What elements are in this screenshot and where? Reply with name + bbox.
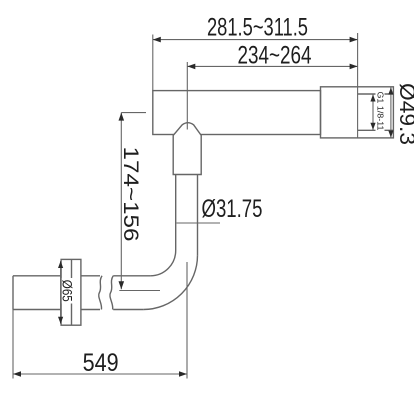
svg-text:G1 1/8-11: G1 1/8-11	[376, 92, 385, 132]
svg-text:Ø49.3: Ø49.3	[395, 83, 414, 145]
svg-text:234~264: 234~264	[238, 42, 312, 70]
svg-text:Ø31.75: Ø31.75	[202, 195, 263, 223]
svg-text:281.5~311.5: 281.5~311.5	[207, 14, 308, 42]
svg-text:Ø65: Ø65	[60, 280, 76, 302]
svg-text:549: 549	[83, 349, 119, 377]
svg-text:174~156: 174~156	[119, 147, 143, 242]
